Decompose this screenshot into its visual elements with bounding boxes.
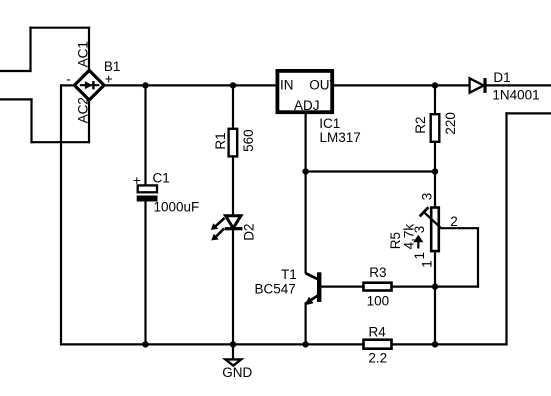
wire AC2 input stub from left edge [0, 98, 33, 100]
svg-text:+: + [105, 72, 113, 87]
svg-text:1: 1 [412, 252, 427, 260]
junction pot bottom rail [432, 341, 438, 347]
junction T1 emitter rail [302, 341, 308, 347]
svg-text:C1: C1 [153, 171, 170, 186]
svg-text:OUT: OUT [309, 78, 338, 93]
svg-text:GND: GND [222, 365, 252, 380]
svg-text:3: 3 [420, 193, 435, 201]
wire D2 to bottom rail [232, 230, 234, 344]
wire pot pin1 down to bottom rail [434, 252, 436, 346]
svg-text:D1: D1 [493, 70, 510, 85]
wire R2 bottom to pot pin 3 [434, 143, 436, 207]
wire right return vertical [505, 112, 507, 345]
svg-text:D2: D2 [241, 224, 256, 241]
junction C1 top [142, 82, 148, 88]
svg-text:2.2: 2.2 [368, 351, 387, 366]
svg-text:220: 220 [443, 112, 458, 135]
svg-text:1: 1 [420, 260, 435, 268]
voltage regulator IC1 LM317 [277, 71, 332, 112]
svg-text:2: 2 [450, 214, 458, 229]
wire pot wiper pin2 horizontal [441, 227, 478, 229]
junction ADJ branch [302, 168, 308, 174]
wire AC2 input stub vertical [30, 98, 32, 143]
wire C1 bottom [144, 201, 146, 344]
svg-text:+: + [133, 173, 141, 188]
pot direction arrow [413, 235, 423, 249]
wire ADJ branch horizontal [306, 170, 435, 172]
svg-text:100: 100 [367, 294, 390, 309]
wire R2 top [434, 84, 436, 113]
resistor R4 [364, 340, 392, 349]
svg-text:-: - [66, 72, 71, 87]
junction R2 bottom [432, 168, 438, 174]
svg-text:BC547: BC547 [255, 281, 296, 296]
wire left vertical rail minus [60, 84, 62, 345]
wire GND stub [232, 344, 234, 359]
wire T1 base to R3 [321, 286, 363, 288]
wire D1 cathode to right edge [486, 84, 551, 86]
svg-text:R4: R4 [369, 324, 387, 339]
svg-text:R3: R3 [369, 265, 386, 280]
wire bridge minus to corner [60, 84, 76, 86]
wire AC1 input stub vertical [29, 27, 31, 73]
wire bridge top vertical [88, 27, 90, 72]
junction D1 node [432, 82, 438, 88]
svg-text:IN: IN [280, 78, 294, 93]
junction R1 top [230, 82, 236, 88]
capacitor C1 [137, 185, 158, 201]
svg-text:1000uF: 1000uF [154, 199, 200, 214]
svg-text:ADJ: ADJ [294, 98, 320, 113]
wire bridge bottom vertical [88, 99, 90, 144]
svg-text:R2: R2 [413, 116, 428, 133]
svg-text:560: 560 [241, 129, 256, 152]
diode D1 [470, 78, 487, 93]
svg-text:T1: T1 [281, 267, 297, 282]
resistor R2 [431, 114, 440, 142]
wire R1 to D2 [232, 157, 234, 216]
svg-text:AC1: AC1 [75, 41, 90, 67]
potentiometer R5 [420, 207, 442, 251]
wire bottom rail right of R4 [393, 343, 508, 345]
junction C1 bottom rail [142, 341, 148, 347]
wire ADJ vertical to T1 collector [305, 113, 307, 274]
svg-text:AC2: AC2 [75, 97, 90, 123]
wire AC1 input stub horizontal top [29, 27, 90, 29]
svg-text:LM317: LM317 [320, 130, 361, 145]
wire AC1 input stub to left edge [0, 70, 32, 72]
wire OUT to D1 node [333, 84, 470, 86]
wire R3 right and wiper return [393, 286, 480, 288]
wire pin2 loop vertical [477, 227, 479, 288]
wire R1 top [232, 85, 234, 128]
resistor R3 [364, 283, 392, 291]
svg-text:R1: R1 [213, 132, 228, 149]
ground symbol [225, 359, 241, 365]
junction GND rail [230, 341, 236, 347]
wire AC2 input stub horizontal bottom [30, 141, 90, 143]
wire top rail bridge to IC1 IN [103, 84, 277, 86]
resistor R1 [229, 129, 238, 157]
wire C1 top [144, 85, 146, 185]
LED D2 [211, 216, 243, 241]
junction R3 wiper node [432, 283, 438, 289]
transistor T1 [305, 272, 322, 305]
wire right return horizontal from edge [505, 112, 551, 114]
svg-text:4,7k: 4,7k [401, 224, 416, 250]
wire T1 emitter vertical [305, 303, 307, 345]
svg-text:1N4001: 1N4001 [492, 87, 539, 102]
svg-text:IC1: IC1 [319, 116, 340, 131]
wire bottom rail left of R4 [61, 343, 363, 345]
bridge rectifier B1 [74, 70, 104, 100]
